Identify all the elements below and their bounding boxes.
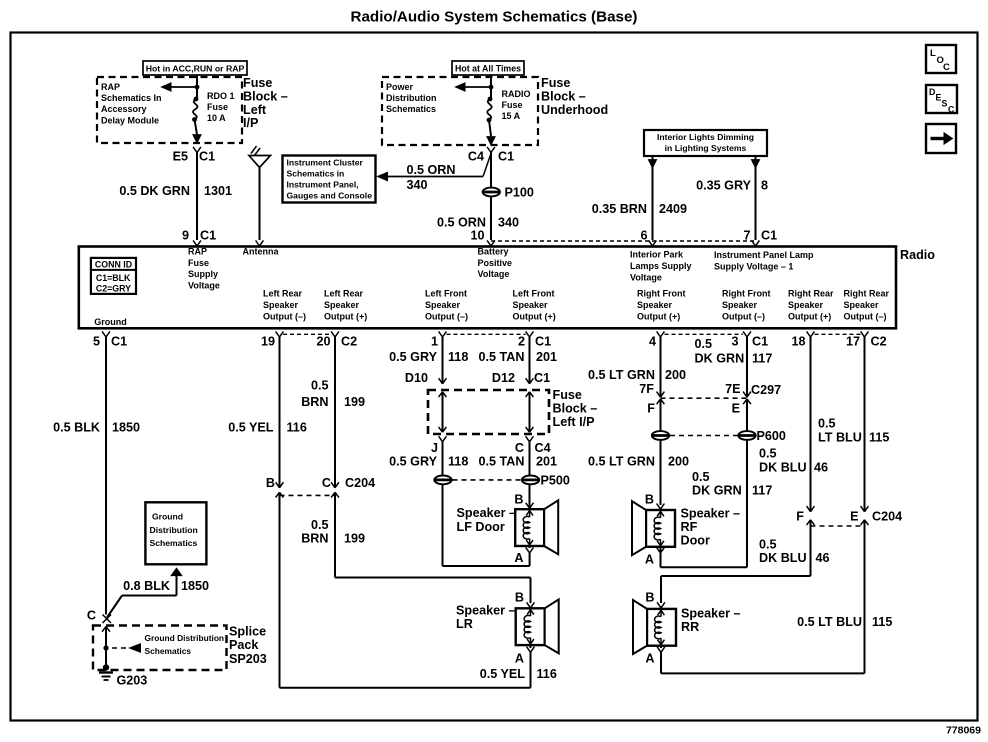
svg-text:Schematics: Schematics: [145, 646, 192, 656]
svg-text:Left I/P: Left I/P: [553, 415, 595, 429]
svg-text:18: 18: [791, 335, 805, 349]
svg-text:I/P: I/P: [243, 116, 258, 130]
svg-text:A: A: [645, 553, 654, 567]
svg-text:A: A: [515, 652, 524, 666]
svg-text:RR: RR: [681, 620, 699, 634]
svg-text:C1=BLK: C1=BLK: [96, 273, 131, 283]
svg-text:C1: C1: [498, 150, 514, 164]
svg-text:118: 118: [448, 350, 468, 364]
svg-text:116: 116: [537, 667, 557, 681]
svg-text:LF Door: LF Door: [457, 520, 505, 534]
svg-text:Speaker: Speaker: [324, 300, 360, 310]
svg-text:0.5 LT BLU: 0.5 LT BLU: [797, 615, 862, 629]
svg-text:F: F: [647, 402, 655, 416]
svg-text:Supply: Supply: [188, 269, 218, 279]
svg-text:Output (–): Output (–): [844, 311, 887, 321]
svg-text:C1: C1: [535, 335, 551, 349]
svg-text:Interior Park: Interior Park: [630, 250, 684, 260]
svg-text:RAP: RAP: [101, 82, 120, 92]
svg-text:0.35 GRY: 0.35 GRY: [696, 179, 751, 193]
svg-text:C: C: [943, 62, 950, 73]
svg-text:Distribution: Distribution: [386, 93, 437, 103]
svg-text:Output (+): Output (+): [324, 311, 367, 321]
svg-text:Accessory: Accessory: [101, 104, 147, 114]
svg-text:4: 4: [649, 335, 656, 349]
svg-text:Radio: Radio: [900, 248, 935, 262]
svg-text:J: J: [431, 441, 438, 455]
svg-text:C204: C204: [345, 476, 375, 490]
svg-text:0.5: 0.5: [692, 470, 710, 484]
svg-text:C2=GRY: C2=GRY: [96, 284, 131, 294]
svg-text:Speaker –: Speaker –: [457, 506, 517, 520]
svg-text:778069: 778069: [946, 725, 981, 737]
svg-text:0.35 BRN: 0.35 BRN: [592, 202, 647, 216]
svg-text:9: 9: [182, 229, 189, 243]
svg-text:C2: C2: [341, 335, 357, 349]
svg-text:0.5 ORN: 0.5 ORN: [437, 216, 486, 230]
svg-text:Output (+): Output (+): [637, 311, 680, 321]
svg-text:Supply Voltage – 1: Supply Voltage – 1: [714, 262, 793, 272]
svg-text:P500: P500: [541, 474, 570, 488]
svg-text:C: C: [515, 441, 524, 455]
svg-text:Positive: Positive: [478, 258, 513, 268]
svg-text:Fuse: Fuse: [553, 388, 582, 402]
svg-text:Block –: Block –: [541, 90, 586, 104]
svg-text:199: 199: [344, 532, 365, 546]
svg-text:Speaker –: Speaker –: [681, 607, 741, 621]
svg-text:Hot in ACC,RUN or RAP: Hot in ACC,RUN or RAP: [146, 64, 245, 74]
svg-text:199: 199: [344, 395, 365, 409]
svg-text:2409: 2409: [659, 202, 687, 216]
svg-text:A: A: [514, 551, 523, 565]
svg-text:1: 1: [431, 335, 438, 349]
svg-text:Output (+): Output (+): [788, 311, 831, 321]
svg-text:0.5 YEL: 0.5 YEL: [228, 421, 274, 435]
svg-text:7F: 7F: [639, 382, 654, 396]
svg-text:Interior Lights Dimming: Interior Lights Dimming: [657, 132, 754, 142]
svg-text:Right Front: Right Front: [722, 288, 771, 298]
svg-text:D12: D12: [492, 371, 515, 385]
svg-text:C1: C1: [200, 229, 216, 243]
svg-text:Left Rear: Left Rear: [263, 288, 303, 298]
svg-text:B: B: [515, 591, 524, 605]
svg-text:Ground Distribution: Ground Distribution: [145, 633, 225, 643]
svg-text:0.5 GRY: 0.5 GRY: [389, 350, 437, 364]
svg-text:1850: 1850: [181, 579, 209, 593]
svg-text:D: D: [929, 87, 935, 97]
svg-text:C1: C1: [534, 371, 550, 385]
svg-text:20: 20: [316, 335, 330, 349]
svg-text:Power: Power: [386, 82, 414, 92]
svg-text:Battery: Battery: [478, 246, 509, 256]
svg-text:Speaker –: Speaker –: [681, 507, 741, 521]
svg-text:LR: LR: [456, 617, 473, 631]
svg-text:Radio/Audio System Schematics: Radio/Audio System Schematics (Base): [351, 9, 638, 26]
svg-text:Instrument Panel,: Instrument Panel,: [287, 180, 359, 190]
svg-text:Fuse: Fuse: [541, 76, 570, 90]
svg-text:Voltage: Voltage: [630, 273, 662, 283]
svg-text:Voltage: Voltage: [188, 280, 220, 290]
svg-text:A: A: [645, 652, 654, 666]
svg-text:Right Rear: Right Rear: [788, 288, 834, 298]
svg-text:3: 3: [731, 335, 738, 349]
svg-text:B: B: [266, 476, 275, 490]
svg-text:C4: C4: [535, 441, 551, 455]
svg-text:Speaker: Speaker: [844, 300, 880, 310]
svg-text:DK BLU: DK BLU: [759, 461, 807, 475]
svg-text:Hot at All Times: Hot at All Times: [455, 64, 521, 74]
svg-text:201: 201: [536, 350, 557, 364]
svg-text:C1: C1: [761, 229, 777, 243]
svg-text:Fuse: Fuse: [243, 76, 272, 90]
svg-text:0.5 YEL: 0.5 YEL: [480, 667, 526, 681]
svg-text:0.5 TAN: 0.5 TAN: [479, 350, 525, 364]
svg-text:Fuse: Fuse: [188, 258, 209, 268]
svg-text:10 A: 10 A: [207, 113, 226, 123]
svg-text:Voltage: Voltage: [478, 269, 510, 279]
svg-text:Output (+): Output (+): [513, 311, 556, 321]
svg-text:0.5: 0.5: [759, 538, 777, 552]
svg-text:P600: P600: [757, 429, 786, 443]
svg-text:0.8 BLK: 0.8 BLK: [123, 579, 170, 593]
svg-text:0.5: 0.5: [311, 518, 329, 532]
svg-text:Right Front: Right Front: [637, 288, 686, 298]
svg-text:P100: P100: [505, 186, 534, 200]
svg-text:200: 200: [665, 368, 686, 382]
svg-text:Speaker: Speaker: [722, 300, 758, 310]
svg-text:C4: C4: [468, 150, 484, 164]
svg-text:Instrument Panel Lamp: Instrument Panel Lamp: [714, 250, 814, 260]
svg-text:Speaker: Speaker: [263, 300, 299, 310]
svg-text:Delay Module: Delay Module: [101, 116, 159, 126]
svg-text:8: 8: [761, 179, 768, 193]
svg-text:201: 201: [536, 455, 557, 469]
svg-text:0.5: 0.5: [695, 337, 713, 351]
svg-text:S: S: [942, 99, 948, 109]
svg-text:Antenna: Antenna: [243, 246, 280, 256]
svg-text:0.5: 0.5: [818, 417, 836, 431]
svg-text:Speaker: Speaker: [637, 300, 673, 310]
svg-text:C1: C1: [111, 335, 127, 349]
svg-text:0.5: 0.5: [311, 379, 329, 393]
svg-text:C297: C297: [751, 383, 781, 397]
svg-text:RDO 1: RDO 1: [207, 91, 235, 101]
svg-text:C: C: [948, 105, 955, 115]
svg-text:117: 117: [752, 352, 772, 366]
svg-text:Door: Door: [681, 534, 710, 548]
svg-text:Fuse: Fuse: [207, 102, 228, 112]
svg-text:B: B: [514, 493, 523, 507]
svg-text:Right Rear: Right Rear: [844, 288, 890, 298]
svg-text:B: B: [645, 591, 654, 605]
svg-text:5: 5: [93, 335, 100, 349]
svg-text:7E: 7E: [725, 382, 740, 396]
svg-text:46: 46: [816, 551, 830, 565]
svg-text:0.5 ORN: 0.5 ORN: [407, 163, 456, 177]
svg-text:Pack: Pack: [229, 638, 259, 652]
svg-text:in Lighting Systems: in Lighting Systems: [665, 143, 747, 153]
svg-text:G203: G203: [117, 674, 148, 688]
svg-text:Schematics In: Schematics In: [101, 93, 162, 103]
svg-text:RADIO: RADIO: [502, 89, 531, 99]
svg-text:115: 115: [869, 431, 889, 445]
svg-text:Instrument Cluster: Instrument Cluster: [287, 158, 364, 168]
svg-text:DK BLU: DK BLU: [759, 551, 807, 565]
svg-text:2: 2: [518, 335, 525, 349]
svg-text:L: L: [930, 48, 936, 59]
svg-text:CONN ID: CONN ID: [95, 259, 132, 269]
svg-text:RF: RF: [681, 520, 698, 534]
svg-text:C1: C1: [199, 150, 215, 164]
svg-text:116: 116: [287, 421, 307, 435]
svg-text:Splice: Splice: [229, 625, 266, 639]
svg-text:Ground: Ground: [94, 317, 127, 327]
svg-text:Ground: Ground: [152, 512, 183, 522]
svg-text:Fuse: Fuse: [502, 100, 523, 110]
svg-text:F: F: [796, 510, 804, 524]
svg-text:Speaker: Speaker: [513, 300, 549, 310]
svg-text:0.5 BLK: 0.5 BLK: [53, 421, 100, 435]
svg-text:340: 340: [407, 178, 428, 192]
svg-text:Underhood: Underhood: [541, 103, 608, 117]
svg-text:C2: C2: [871, 335, 887, 349]
svg-text:0.5: 0.5: [759, 447, 777, 461]
svg-text:C204: C204: [872, 510, 902, 524]
svg-text:E: E: [850, 510, 858, 524]
svg-text:DK GRN: DK GRN: [695, 352, 745, 366]
svg-text:Schematics in: Schematics in: [287, 169, 345, 179]
svg-text:0.5 LT GRN: 0.5 LT GRN: [588, 368, 655, 382]
svg-text:Schematics: Schematics: [150, 538, 198, 548]
svg-text:D10: D10: [405, 371, 428, 385]
svg-text:17: 17: [846, 335, 860, 349]
svg-text:Output (–): Output (–): [722, 311, 765, 321]
svg-text:0.5 TAN: 0.5 TAN: [479, 455, 525, 469]
svg-text:117: 117: [752, 484, 772, 498]
svg-text:E: E: [732, 402, 740, 416]
svg-text:RAP: RAP: [188, 246, 207, 256]
svg-text:Lamps Supply: Lamps Supply: [630, 261, 692, 271]
svg-text:Speaker: Speaker: [425, 300, 461, 310]
svg-text:B: B: [645, 493, 654, 507]
svg-text:Left Front: Left Front: [425, 288, 467, 298]
svg-text:0.5 LT GRN: 0.5 LT GRN: [588, 455, 655, 469]
svg-text:LT BLU: LT BLU: [818, 431, 862, 445]
svg-text:E5: E5: [173, 150, 188, 164]
svg-text:C1: C1: [752, 335, 768, 349]
svg-text:Speaker: Speaker: [788, 300, 824, 310]
svg-text:Block –: Block –: [553, 402, 598, 416]
svg-text:118: 118: [448, 455, 468, 469]
svg-text:Distribution: Distribution: [150, 525, 198, 535]
svg-text:46: 46: [814, 461, 828, 475]
svg-text:0.5 GRY: 0.5 GRY: [389, 455, 437, 469]
svg-text:Speaker –: Speaker –: [456, 604, 516, 618]
svg-text:Left: Left: [243, 103, 267, 117]
svg-text:Left Rear: Left Rear: [324, 288, 364, 298]
svg-text:BRN: BRN: [301, 395, 328, 409]
svg-text:1850: 1850: [112, 421, 140, 435]
svg-text:C: C: [322, 476, 331, 490]
svg-text:SP203: SP203: [229, 652, 267, 666]
svg-text:Output (–): Output (–): [425, 311, 468, 321]
svg-text:1301: 1301: [204, 184, 232, 198]
svg-text:C: C: [87, 609, 96, 623]
svg-text:Block –: Block –: [243, 90, 288, 104]
svg-text:Schematics: Schematics: [386, 104, 436, 114]
svg-text:15 A: 15 A: [502, 111, 521, 121]
svg-text:115: 115: [872, 615, 892, 629]
svg-text:BRN: BRN: [301, 532, 328, 546]
svg-text:0.5 DK GRN: 0.5 DK GRN: [119, 184, 190, 198]
svg-text:200: 200: [668, 455, 689, 469]
svg-text:DK GRN: DK GRN: [692, 484, 742, 498]
svg-text:19: 19: [261, 335, 275, 349]
svg-text:Gauges and Console: Gauges and Console: [287, 191, 373, 201]
svg-text:Output (–): Output (–): [263, 311, 306, 321]
svg-text:340: 340: [498, 216, 519, 230]
svg-text:10: 10: [470, 229, 484, 243]
svg-text:Left Front: Left Front: [513, 288, 555, 298]
